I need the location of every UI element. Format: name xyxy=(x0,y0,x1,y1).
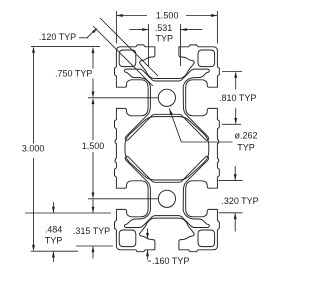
svg-text:TYP: TYP xyxy=(156,33,174,43)
svg-text:.120 TYP: .120 TYP xyxy=(39,32,76,42)
svg-text:.160 TYP: .160 TYP xyxy=(152,256,189,266)
svg-text:.531: .531 xyxy=(155,23,173,33)
svg-text:1.500: 1.500 xyxy=(82,141,105,151)
svg-text:.484: .484 xyxy=(45,225,63,235)
svg-text:3.000: 3.000 xyxy=(22,144,45,154)
svg-text:.810 TYP: .810 TYP xyxy=(219,93,256,103)
svg-text:.320 TYP: .320 TYP xyxy=(221,196,258,206)
svg-text:1.500: 1.500 xyxy=(156,10,179,20)
svg-text:ø.262: ø.262 xyxy=(234,131,257,141)
svg-text:TYP: TYP xyxy=(237,142,255,152)
svg-text:.315 TYP: .315 TYP xyxy=(73,226,110,236)
svg-text:TYP: TYP xyxy=(45,236,63,246)
svg-text:.750 TYP: .750 TYP xyxy=(55,69,92,79)
